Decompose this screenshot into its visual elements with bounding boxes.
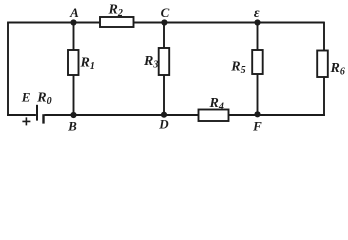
wire branch A to R1	[73, 23, 75, 51]
resistor R5	[252, 50, 263, 74]
wire bottom right segment	[229, 114, 325, 116]
svg-text:B: B	[67, 119, 77, 133]
svg-text:F: F	[252, 119, 262, 133]
resistor R3	[159, 48, 170, 75]
resistor R4	[199, 110, 229, 122]
svg-text:C: C	[161, 5, 170, 20]
battery E long plate (+)	[36, 105, 38, 121]
resistor R1	[68, 50, 79, 75]
wire branch C to R3	[163, 23, 165, 49]
wire right edge lower	[323, 77, 325, 116]
svg-text:E: E	[21, 89, 31, 104]
battery E short plate (-)	[42, 114, 44, 123]
wire R1 to B	[73, 75, 75, 115]
wire top right segment	[134, 22, 325, 24]
node E (emf) junction dot	[254, 19, 260, 25]
wire top left segment	[7, 22, 100, 24]
svg-text:D: D	[158, 117, 169, 132]
svg-text:R3: R3	[143, 54, 158, 71]
wire right edge upper	[323, 22, 325, 51]
resistor R6	[317, 51, 328, 78]
node A junction dot	[70, 19, 76, 25]
resistor R2	[100, 17, 134, 27]
svg-text:R2: R2	[108, 2, 123, 19]
wire bottom middle segment	[45, 114, 199, 116]
svg-text:R1: R1	[80, 56, 95, 73]
node D junction dot	[161, 112, 167, 118]
svg-text:R4: R4	[209, 96, 224, 113]
wire R5 to F	[257, 74, 259, 115]
svg-text:R6: R6	[330, 61, 345, 78]
svg-text:A: A	[69, 5, 79, 20]
svg-text:ε: ε	[254, 6, 260, 21]
wire R3 to D	[163, 75, 165, 115]
svg-text:R0: R0	[36, 91, 51, 108]
svg-text:R5: R5	[230, 60, 245, 77]
plus sign of battery	[22, 117, 30, 125]
wire left edge	[7, 23, 9, 116]
node C junction dot	[161, 19, 167, 25]
node B junction dot	[70, 112, 76, 118]
wire branch E to R5	[257, 23, 259, 51]
node F junction dot	[254, 111, 260, 117]
wire bottom left segment	[7, 114, 36, 116]
